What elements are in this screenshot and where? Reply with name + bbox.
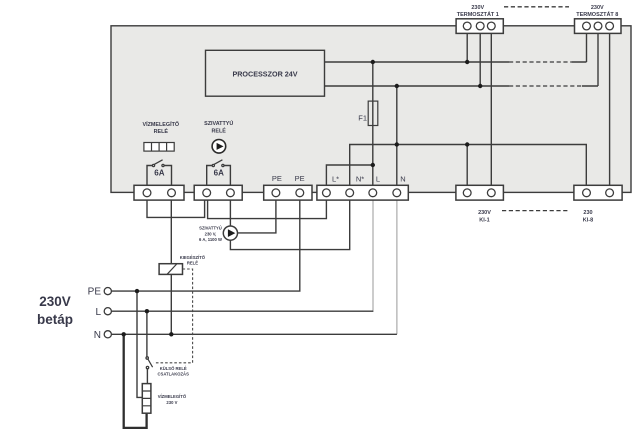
svg-text:RELÉ: RELÉ bbox=[154, 127, 169, 135]
svg-text:KI-1: KI-1 bbox=[479, 217, 489, 223]
svg-text:L: L bbox=[376, 174, 380, 183]
wire: L* to L link bbox=[326, 165, 372, 193]
KI-8 output terminal block bbox=[574, 185, 622, 200]
N input terminal bbox=[104, 331, 111, 338]
terminal block mains L*/N*/L/N bbox=[317, 185, 408, 200]
wire: L terminal thin drop bbox=[372, 197, 374, 311]
external relay switch bbox=[146, 357, 153, 369]
svg-text:230 V: 230 V bbox=[166, 400, 177, 405]
terminal block PE bbox=[264, 185, 312, 200]
wire: PE branch to heater body bbox=[137, 291, 142, 397]
junction dots in controller bbox=[371, 60, 375, 64]
svg-text:betáp: betáp bbox=[37, 312, 73, 327]
svg-text:RELÉ: RELÉ bbox=[212, 127, 227, 135]
wire: N input rail bbox=[111, 333, 397, 335]
pump relay icon bbox=[212, 140, 226, 154]
wire: PE1 to pump body bbox=[238, 193, 276, 233]
svg-text:230V: 230V bbox=[591, 5, 604, 11]
wire: heater switch to heater bbox=[146, 369, 148, 384]
dashed link relay to external switch bbox=[154, 269, 193, 363]
processor module U1 bbox=[206, 50, 325, 96]
wire: N* to N and KI blocks (neutral rail) bbox=[350, 145, 587, 193]
dashed ditto line KI bbox=[502, 210, 570, 212]
svg-text:PE: PE bbox=[272, 174, 282, 183]
svg-text:L*: L* bbox=[332, 174, 339, 183]
svg-text:PE: PE bbox=[88, 287, 102, 298]
wire: processor line 2 to thermostats bbox=[325, 85, 510, 87]
wire: N riser bbox=[396, 86, 398, 193]
svg-text:230V: 230V bbox=[478, 210, 491, 216]
KI-1 output terminal block bbox=[456, 185, 504, 200]
svg-text:VÍZMELEGÍTŐ: VÍZMELEGÍTŐ bbox=[158, 394, 187, 399]
terminal block relay2 output bbox=[194, 185, 242, 200]
wire: L riser through fuse bbox=[372, 62, 374, 193]
svg-text:230V: 230V bbox=[471, 5, 484, 11]
relay1 switch 6A bbox=[147, 160, 172, 186]
svg-text:230V: 230V bbox=[39, 294, 71, 309]
fuse F1 bbox=[368, 101, 378, 125]
svg-text:230 V,: 230 V, bbox=[205, 232, 217, 237]
wire: processor line 1 to thermostats bbox=[325, 61, 510, 63]
svg-text:KIEGÉSZÍTŐ: KIEGÉSZÍTŐ bbox=[180, 255, 206, 260]
wire: thermostat 1 pin2 drop bbox=[479, 26, 481, 86]
wire: L branch down to heater switch bbox=[146, 311, 148, 357]
thermostat 1 terminal block bbox=[456, 19, 503, 34]
wire: KI-1 left pin riser bbox=[466, 145, 468, 193]
main controller unit box bbox=[111, 26, 631, 193]
auxiliary relay coil bbox=[159, 264, 182, 275]
svg-text:N: N bbox=[400, 174, 405, 183]
wire: relay2 out to L* terminal bbox=[208, 193, 327, 219]
wire: thermostat 8 pin3 to KI-8 right pin bbox=[609, 26, 611, 193]
svg-text:SZIVATTYÚ: SZIVATTYÚ bbox=[199, 225, 222, 230]
water heater element bbox=[142, 384, 151, 414]
wire: relay1 right pin through auxiliary relay coil to N rail bbox=[170, 193, 172, 334]
pump P1 bbox=[223, 226, 237, 240]
svg-text:N: N bbox=[94, 330, 101, 341]
dashed ditto line thermostats bbox=[504, 6, 569, 8]
wire: L input rail bbox=[111, 310, 373, 313]
wire: thermostat 1 pin1 drop bbox=[466, 26, 468, 62]
svg-text:KI-8: KI-8 bbox=[583, 217, 593, 223]
svg-text:TERMOSZTÁT 8: TERMOSZTÁT 8 bbox=[576, 11, 618, 18]
svg-text:SZIVATTYÚ: SZIVATTYÚ bbox=[204, 120, 233, 127]
wire: N branch bottom loop to heater bbox=[124, 334, 147, 428]
svg-text:PE: PE bbox=[295, 174, 305, 183]
svg-text:F1: F1 bbox=[358, 113, 367, 122]
wire: relay2 right pin to pump bbox=[229, 193, 231, 233]
svg-text:6A: 6A bbox=[214, 168, 224, 177]
svg-text:N*: N* bbox=[356, 174, 364, 183]
svg-text:230: 230 bbox=[583, 210, 592, 216]
junction dots input rails bbox=[135, 289, 139, 293]
PE input terminal bbox=[104, 288, 111, 295]
wire: PE2 down to PE input rail bbox=[111, 193, 299, 291]
svg-text:CSATLAKOZÁS: CSATLAKOZÁS bbox=[158, 371, 190, 376]
L input terminal bbox=[104, 308, 111, 315]
svg-text:TERMOSZTÁT 1: TERMOSZTÁT 1 bbox=[457, 11, 499, 18]
svg-text:KÜLSŐ RELÉ: KÜLSŐ RELÉ bbox=[160, 366, 187, 371]
svg-text:PROCESSZOR 24V: PROCESSZOR 24V bbox=[232, 69, 297, 78]
water-heater relay icon bbox=[144, 143, 174, 152]
wire: thermostat 1 pin3 to KI-1 right pin bbox=[490, 26, 492, 193]
wire: pump bottom to N* terminal bbox=[230, 193, 349, 250]
terminal block relay1 output bbox=[134, 185, 184, 200]
svg-text:RELÉ: RELÉ bbox=[187, 260, 198, 265]
svg-text:L: L bbox=[95, 307, 101, 318]
svg-text:6A: 6A bbox=[154, 168, 164, 177]
svg-text:VÍZMELEGÍTŐ: VÍZMELEGÍTŐ bbox=[143, 120, 180, 128]
wire: relay1 out-left to relay2 in bbox=[147, 193, 205, 218]
relay2 switch 6A bbox=[207, 160, 231, 186]
thermostat 8 terminal block bbox=[575, 19, 622, 34]
svg-text:6 A, 1100 W: 6 A, 1100 W bbox=[199, 237, 222, 242]
wire: N terminal thin drop bbox=[396, 197, 398, 335]
